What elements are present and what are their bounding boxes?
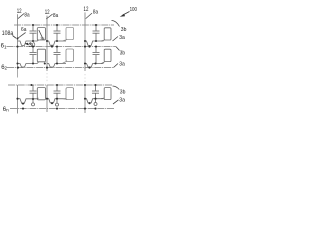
svg-text:3b: 3b xyxy=(121,27,127,33)
svg-text:6n: 6n xyxy=(3,107,9,113)
svg-text:8a: 8a xyxy=(24,13,30,19)
svg-text:108a: 108a xyxy=(2,31,14,37)
svg-text:8a: 8a xyxy=(93,10,99,16)
svg-text:3b: 3b xyxy=(120,89,126,95)
svg-text:34: 34 xyxy=(40,36,45,41)
svg-text:12: 12 xyxy=(45,10,50,16)
svg-text:8a: 8a xyxy=(53,13,59,19)
svg-text:3a: 3a xyxy=(119,61,125,67)
svg-text:100: 100 xyxy=(130,7,137,13)
svg-text:12: 12 xyxy=(84,7,89,13)
svg-text:12: 12 xyxy=(17,9,22,15)
svg-text:6a: 6a xyxy=(21,27,26,33)
svg-text:61: 61 xyxy=(1,44,7,50)
svg-text:3a: 3a xyxy=(119,97,125,103)
svg-text:62: 62 xyxy=(1,65,7,71)
svg-text:3b: 3b xyxy=(120,50,125,56)
svg-text:3a: 3a xyxy=(119,35,125,41)
